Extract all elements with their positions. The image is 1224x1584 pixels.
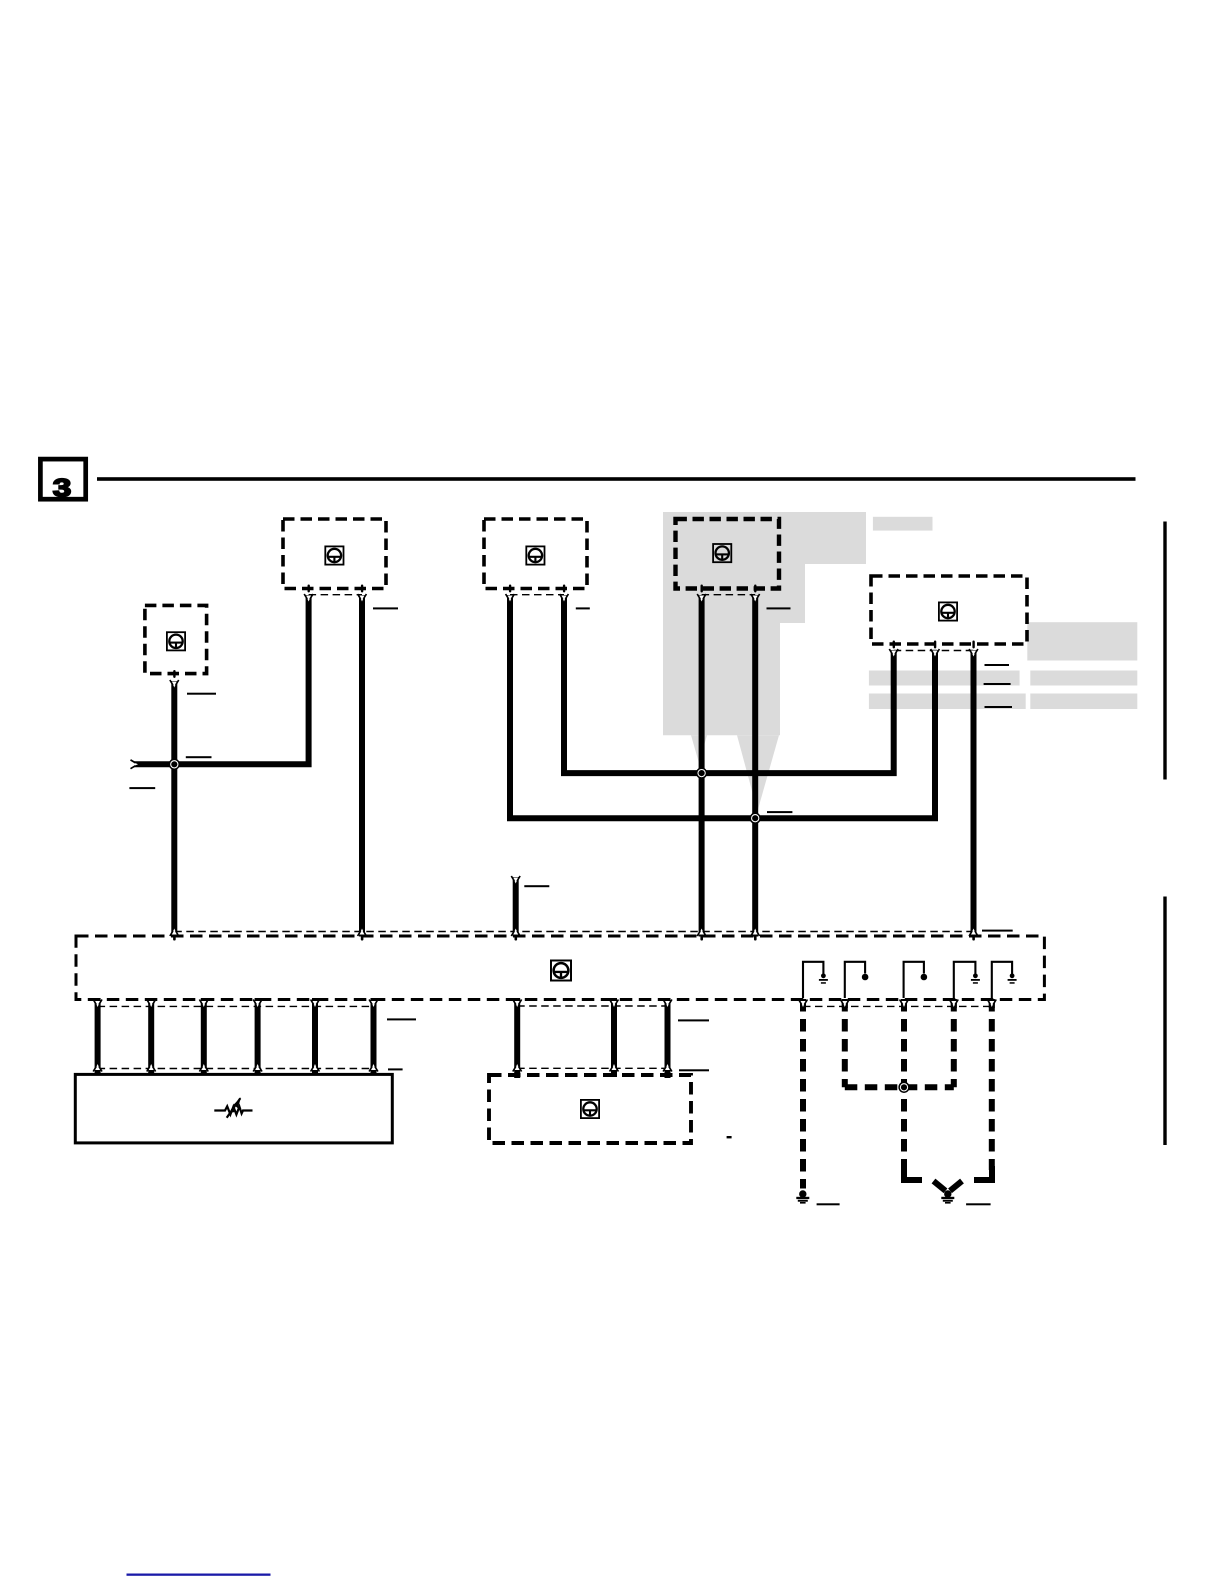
svg-text:3: 3 [53,475,71,502]
